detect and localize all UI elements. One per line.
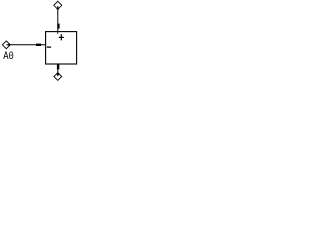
pin terminal (top): [57, 24, 59, 29]
component body U1: [46, 32, 77, 64]
node terminal diamond (bottom): [54, 73, 62, 81]
svg-text:A0: A0: [3, 51, 14, 63]
pin terminal (bottom): [57, 64, 59, 69]
wire-end arrowhead (bottom, pointing down): [56, 74, 59, 77]
wire-end arrowhead (top, pointing up): [56, 7, 59, 10]
wire (left pin): [6, 44, 45, 46]
wire-end arrowhead (left, pointing left): [7, 43, 10, 46]
pin terminal (left): [36, 44, 41, 46]
node terminal diamond (left, net A0): [2, 41, 10, 49]
node terminal diamond (top): [54, 1, 62, 9]
wire (bottom pin): [57, 64, 59, 76]
pin label + (plus polarity mark): [59, 34, 64, 40]
pin label - (minus polarity mark): [47, 47, 51, 48]
wire (top pin): [57, 6, 59, 34]
